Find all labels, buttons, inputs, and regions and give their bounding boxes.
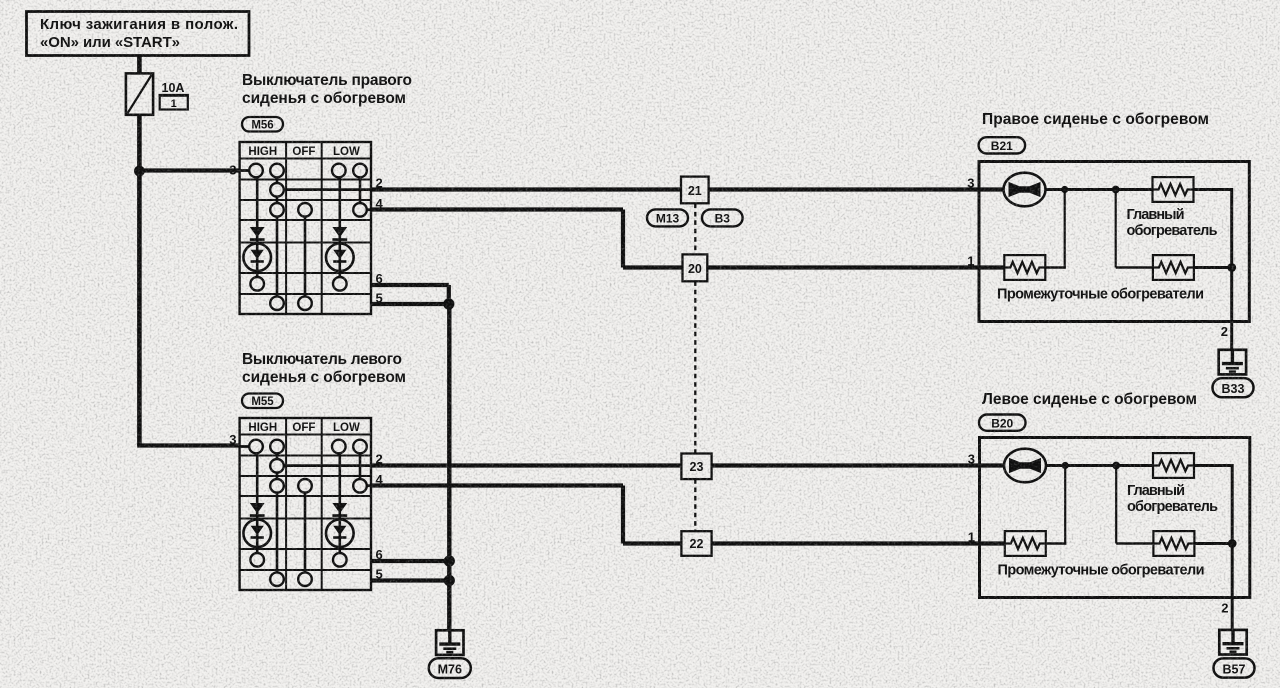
switch M55 — [240, 418, 371, 590]
wire: connector 22 to B20 pin 1 — [623, 541, 1005, 545]
ground B57 — [1219, 630, 1246, 655]
connector 22 — [681, 531, 711, 556]
wire: B21 pin 2 to ground B33 — [1230, 322, 1233, 352]
ignition key box — [27, 12, 250, 56]
dashed harness line 21-20 — [694, 204, 696, 255]
wire: junction down to switch M55 pin 3 — [137, 171, 142, 446]
ground B33 label oval — [1213, 378, 1254, 397]
ground B57 label oval — [1214, 658, 1255, 677]
dashed harness line 20-23 — [694, 281, 696, 453]
wire: to switch M55 pin 3 — [137, 443, 239, 447]
B21 label oval — [979, 137, 1026, 153]
switch M55 label oval — [242, 394, 283, 409]
ground M76 — [436, 630, 463, 655]
heated seat unit B20 — [980, 438, 1250, 598]
node: M55 pin 5 junction — [444, 575, 455, 586]
fuse number box 1 — [160, 96, 188, 110]
wire: M55 pin 4 right segment — [371, 483, 623, 487]
switch M56 label oval — [242, 117, 283, 132]
node: M56 pins 5-6 junction — [443, 298, 454, 309]
wire: M56 pin 4 down segment — [621, 210, 625, 268]
node: M55 pin 6 junction — [444, 555, 455, 566]
wire: M56 pin 6 down to pin 5 — [447, 285, 451, 304]
wire: connector 20 to B21 pin 1 — [623, 265, 1005, 269]
ground M76 label oval — [429, 658, 471, 678]
dashed harness line 23-22 — [694, 479, 696, 531]
connector label B3 — [702, 209, 743, 226]
ground B33 — [1219, 350, 1246, 375]
fuse 10A — [126, 73, 153, 114]
wire: M55 pin 2 to connector 23 to B20 pin 3 — [371, 463, 1004, 467]
wire: M56 pin 2 to connector 21 to B21 pin 3 — [371, 187, 1004, 191]
wire: M55 pin 4 down segment — [621, 486, 625, 544]
wire: key box to fuse — [137, 56, 142, 75]
wire: common ground vertical line — [447, 304, 451, 631]
connector label M13 — [647, 209, 688, 226]
node: fuse output junction — [134, 166, 145, 177]
wire: B20 pin 2 to ground B57 — [1231, 598, 1234, 632]
B20 label oval — [979, 415, 1026, 431]
heated seat unit B21 — [979, 162, 1249, 322]
wire: M56 pin 6 right segment — [371, 283, 449, 287]
switch M56 — [240, 142, 371, 314]
wire: M55 pin 5 right segment — [371, 578, 449, 582]
connector 20 — [683, 254, 708, 281]
wire: M55 pin 6 right segment — [371, 559, 449, 563]
wire: M56 pin 5 right segment — [371, 302, 449, 306]
wire: fuse to junction — [137, 114, 142, 171]
wire: junction to switch M56 pin 3 — [137, 168, 239, 172]
wire: M56 pin 4 right segment — [371, 207, 623, 211]
connector 21 — [681, 177, 709, 204]
connector 23 — [681, 454, 711, 480]
